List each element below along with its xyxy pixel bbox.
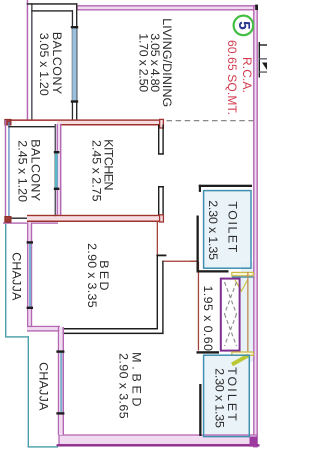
balcony B2 left glazing blue line — [8, 122, 9, 219]
m.bed left wall magenta outer line — [58, 327, 59, 435]
bed top wall fill — [27, 216, 163, 220]
passage bottom wall tick (black) — [197, 351, 220, 353]
toilet T1 blue outline — [204, 191, 251, 269]
door D1 yellow top (duct) — [232, 272, 254, 275]
duct tan right line — [247, 272, 248, 352]
wall top (magenta outer wall) — [77, 6, 257, 10]
neighbour stub tick 2 (gray) — [259, 58, 267, 59]
toilet T2 interior tint — [205, 356, 250, 436]
magenta bridge wall chajja C1/C2 step upper line — [27, 326, 60, 327]
balcony B1 right wall inner line — [72, 10, 73, 121]
svg-text:3.05 x 1.20: 3.05 x 1.20 — [37, 33, 51, 96]
kitchen left wall fill — [57, 124, 61, 216]
magenta bridge wall fill — [27, 327, 60, 330]
kitchen top wall fill — [57, 121, 163, 124]
magenta bridge wall lower line — [27, 330, 60, 331]
kitchen right stub wall lower (black) — [158, 186, 164, 216]
column red right cap of kitchen wall — [160, 119, 164, 128]
wall bottom (magenta outer wall) — [59, 435, 257, 445]
window W2 top cap — [54, 151, 60, 153]
bed left wall magenta outer line — [27, 222, 28, 328]
door D1 leaf diagonals (yellow) — [235, 280, 248, 291]
chajja C1 left cyan line — [5, 224, 6, 338]
column top-right corner — [255, 5, 258, 10]
m.bed left wall magenta inner line — [63, 327, 64, 435]
toilet T2 / m.bed right wall (black) — [199, 384, 201, 436]
wall bottom outer dark line — [57, 444, 260, 446]
window W2 kitchen-balcony (cyan) — [55, 153, 58, 188]
bed right wall top cap (black) — [156, 255, 166, 257]
kitchen left wall magenta outer line — [57, 124, 58, 216]
balcony B2 bottom rail black — [8, 218, 55, 219]
kitchen left wall magenta inner line — [60, 124, 61, 216]
door D2 yellow bottom (duct) — [232, 352, 254, 355]
window W3 top cap — [27, 241, 33, 243]
duct shaft purple outline — [221, 279, 240, 351]
svg-text:2.30 x 1.35: 2.30 x 1.35 — [206, 200, 220, 260]
bed left wall magenta inner line — [31, 222, 32, 327]
svg-text:5: 5 — [235, 21, 252, 30]
kitchen top wall red inner line — [57, 124, 163, 126]
svg-text:CHAJJA: CHAJJA — [36, 362, 50, 411]
blue sill line under door D1 — [232, 276, 254, 277]
wall right (magenta outer wall) — [254, 6, 257, 447]
toilet T1 top wall (black) — [199, 185, 252, 187]
svg-text:2.90 x 3.35: 2.90 x 3.35 — [85, 243, 99, 308]
dashed line living/foyer — [167, 120, 254, 122]
neighbour stub tick 3 (gray) — [259, 71, 267, 72]
window W2 bottom cap — [54, 188, 60, 190]
balcony B2 left wall magenta line — [5, 120, 6, 223]
red tick left of toilet T1 — [190, 261, 196, 262]
m.bed left wall fill — [59, 327, 62, 435]
svg-text:60.65 SQ.MT.: 60.65 SQ.MT. — [225, 40, 239, 115]
kitchen top wall red outer line — [5, 119, 164, 121]
chajja C2 left cyan line — [28, 336, 29, 447]
bed right wall inner line (black) — [157, 256, 158, 329]
window W1 top cap — [71, 26, 78, 28]
svg-text:R.C.A.: R.C.A. — [240, 57, 254, 93]
bed top wall red outer line — [27, 215, 163, 217]
red line kitchen-bed right jamb — [157, 222, 158, 255]
svg-text:2.90 x 3.65: 2.90 x 3.65 — [117, 353, 131, 419]
svg-text:2.30 x 1.35: 2.30 x 1.35 — [212, 368, 226, 428]
neighbour stub wedge mark — [262, 63, 267, 71]
kitchen right stub wall upper (black) — [158, 125, 164, 155]
window W3 bed-chajja (blue) — [29, 243, 31, 306]
svg-text:2.45 x 1.20: 2.45 x 1.20 — [16, 140, 30, 202]
balcony B1 left wall magenta line — [27, 0, 29, 121]
window W4 m.bed-chajja (blue) — [60, 353, 62, 413]
chajja C2 bottom cyan line — [28, 446, 58, 447]
svg-text:KITCHEN: KITCHEN — [102, 139, 116, 190]
window W1 bottom cap — [71, 100, 78, 102]
red line passage top — [164, 261, 197, 262]
duct hatch X pattern (gray dashed) — [225, 282, 237, 346]
bed right wall outer line (black) — [162, 261, 163, 334]
kitchen left wall gray line — [55, 124, 56, 218]
red line duct left vertical — [198, 262, 199, 351]
bed top wall red inner line — [27, 221, 163, 223]
balcony B1 top rail outer — [27, 3, 78, 4]
toilet T2 blue outline — [204, 355, 250, 436]
column red left (balcony B2 bottom corner) — [5, 217, 11, 223]
window W1 balcony right (cyan) — [72, 28, 76, 101]
balcony B2 top rail black — [8, 126, 55, 127]
column bottom-right corner — [250, 437, 258, 447]
toilet T1 left wall (black) — [197, 216, 199, 273]
toilet T1 interior tint — [204, 191, 251, 268]
bed top wall magenta lower line — [3, 222, 58, 223]
window W3 bottom cap — [27, 307, 33, 309]
toilet T1 top wall left cap — [199, 185, 201, 192]
door D2 leaf (yellow-green) — [232, 356, 248, 365]
bed bottom / m.bed top wall outer line (black) — [61, 333, 164, 335]
unit number circle (green) — [234, 16, 254, 36]
balcony B1 top rail inner — [31, 10, 73, 11]
duct lobby tint — [241, 262, 254, 362]
svg-text:2.45 x 2.75: 2.45 x 2.75 — [89, 140, 103, 202]
svg-text:1.70 x 2.50: 1.70 x 2.50 — [137, 33, 151, 92]
svg-text:CHAJJA: CHAJJA — [9, 252, 23, 301]
svg-text:1.95 x 0.60: 1.95 x 0.60 — [201, 286, 215, 352]
balcony B1 right wall outer line — [76, 3, 77, 121]
column red left (balcony B2 top corner) — [5, 119, 11, 125]
chajja C1 bottom cyan line — [5, 336, 29, 337]
toilet T1 bottom wall tick (black) — [197, 270, 229, 272]
balcony B1 left inner gray line — [31, 3, 32, 121]
window W4 bottom cap — [56, 412, 64, 414]
neighbour stub tick 1 — [259, 44, 267, 45]
column red cap right of bed wall — [160, 215, 164, 222]
bed left wall fill — [28, 222, 31, 327]
window W4 top cap — [56, 350, 64, 352]
bed bottom / m.bed top wall inner line (black) — [61, 328, 158, 330]
svg-text:BALCONY: BALCONY — [50, 32, 64, 94]
neighbour unit stub: vertical black line right edge — [259, 42, 260, 78]
